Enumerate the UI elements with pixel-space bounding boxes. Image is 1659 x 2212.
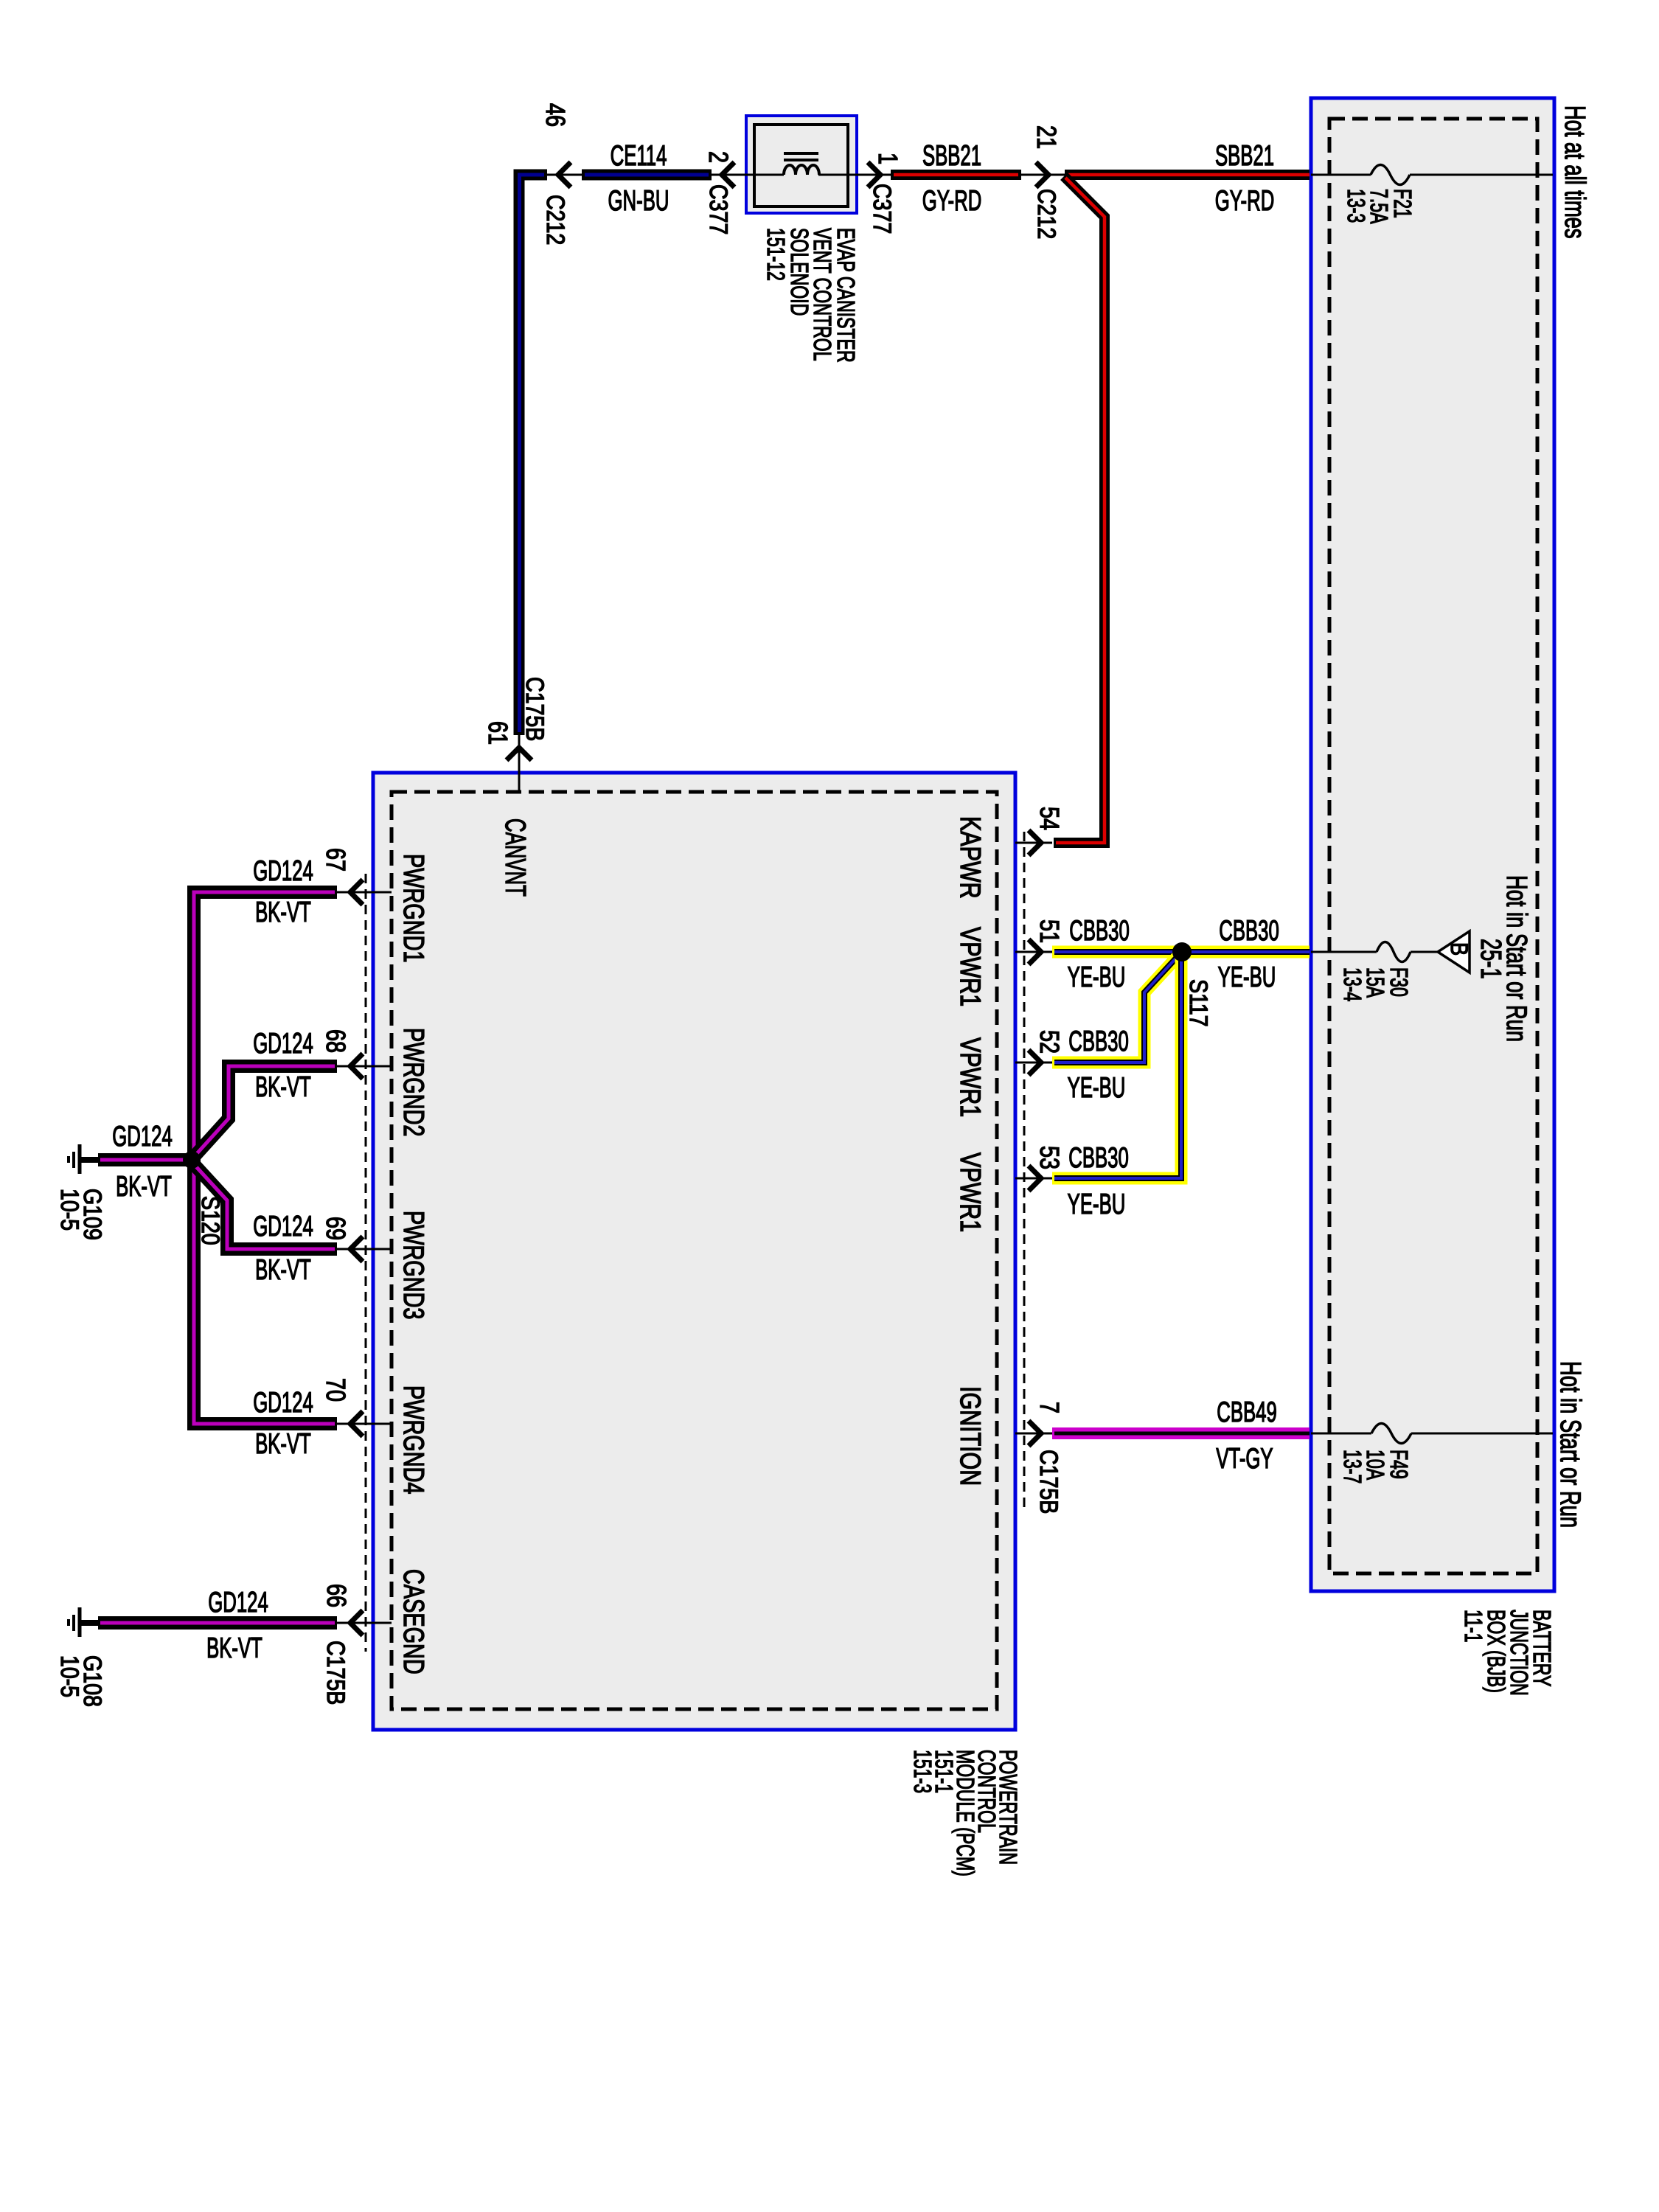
arrow pin 51: [1029, 939, 1041, 964]
svg-text:70: 70: [321, 1378, 351, 1402]
svg-text:C377: C377: [704, 184, 732, 234]
svg-text:51: 51: [1034, 919, 1065, 943]
wire pin2 C377 thin lead into solenoid: [712, 174, 784, 176]
arrow pin 70: [350, 1411, 363, 1436]
svg-text:YE-BU: YE-BU: [1068, 1189, 1126, 1221]
PCM pin 51 lead: [1015, 951, 1052, 953]
arrow pin 7: [1029, 1421, 1041, 1446]
arrow pin 2 C377: [722, 162, 734, 187]
arrow pin 46 C212: [558, 162, 571, 187]
svg-text:GY-RD: GY-RD: [922, 185, 982, 218]
svg-text:CBB30: CBB30: [1219, 915, 1279, 947]
arrow pin 54: [1029, 830, 1041, 855]
wire pin46 C212 thin lead: [547, 174, 584, 176]
fuse F21 7.5A: [1371, 165, 1410, 185]
PCM pin 54 lead: [1015, 842, 1052, 844]
svg-text:IGNITION: IGNITION: [954, 1386, 986, 1486]
svg-text:7: 7: [1034, 1402, 1065, 1413]
svg-text:66: 66: [321, 1584, 352, 1607]
fuse F49 feed line inside BJB: [1311, 1433, 1371, 1435]
svg-text:CBB30: CBB30: [1068, 1142, 1129, 1175]
svg-text:25-1: 25-1: [1475, 939, 1506, 979]
svg-text:GY-RD: GY-RD: [1215, 185, 1275, 218]
svg-text:SBB21: SBB21: [1215, 140, 1274, 173]
svg-text:GD124: GD124: [253, 1211, 313, 1243]
arrow pin 52: [1029, 1050, 1041, 1075]
solenoid coil core bars: [784, 152, 818, 155]
arrow pin 21 C212: [1036, 162, 1048, 187]
svg-text:Hot at all times: Hot at all times: [1559, 105, 1590, 239]
svg-text:VPWR1: VPWR1: [954, 927, 986, 1006]
svg-text:VT-GY: VT-GY: [1216, 1443, 1273, 1475]
wire CE114 GN-BU vertical + top segment: [519, 175, 547, 735]
svg-text:CE114: CE114: [611, 140, 667, 173]
svg-text:Hot in Start or Run: Hot in Start or Run: [1554, 1361, 1586, 1528]
svg-text:GD124: GD124: [208, 1587, 268, 1619]
wire GD124 BK-VT trunk pins 67-70: [194, 892, 337, 1424]
svg-text:10-5: 10-5: [55, 1655, 83, 1697]
wire GD124 BK-VT pin 68 branch: [193, 1066, 337, 1158]
svg-text:KAPWR: KAPWR: [954, 816, 986, 899]
fuse F30 15A: [1377, 942, 1411, 962]
svg-text:SBB21: SBB21: [922, 140, 981, 173]
wire pin1 C377 thin lead out of solenoid: [818, 174, 891, 176]
powertrain control module PCM: [373, 773, 1015, 1730]
PCM left pin lead y=1210: [337, 891, 392, 894]
svg-text:B: B: [1445, 942, 1472, 956]
svg-text:VPWR1: VPWR1: [954, 1037, 986, 1117]
svg-text:BK-VT: BK-VT: [255, 1428, 311, 1461]
wire CBB49 VT-GY pin 7 IGNITION to BJB: [1052, 1427, 1310, 1439]
svg-text:VPWR1: VPWR1: [954, 1152, 986, 1232]
PCM pin 61 lead: [518, 735, 521, 792]
connector C175B dashed line (PCM right): [1023, 832, 1026, 1508]
svg-text:C175B: C175B: [1034, 1450, 1062, 1514]
svg-text:PWRGND3: PWRGND3: [397, 1211, 429, 1319]
svg-text:CBB49: CBB49: [1217, 1397, 1277, 1429]
PCM pin 53 lead: [1015, 1178, 1052, 1180]
svg-text:PWRGND2: PWRGND2: [397, 1028, 429, 1136]
PCM left pin lead y=1446: [337, 1065, 392, 1068]
arrow pin 61 C175B: [507, 748, 532, 760]
svg-text:CANVNT: CANVNT: [499, 818, 532, 897]
wire CBB30 YE-BU pin 51 through splice S117 to BJB: [1052, 946, 1310, 959]
wire pin21 C212 thin lead: [1021, 174, 1066, 176]
wire CBB30 YE-BU pin 53 branch to splice: [1052, 956, 1181, 1178]
svg-text:1: 1: [873, 153, 903, 164]
svg-text:2: 2: [703, 151, 734, 163]
svg-text:13-4: 13-4: [1338, 967, 1366, 1001]
svg-text:61: 61: [483, 721, 513, 745]
svg-text:C212: C212: [541, 195, 569, 245]
svg-text:BK-VT: BK-VT: [206, 1632, 262, 1665]
svg-text:68: 68: [321, 1029, 351, 1053]
svg-text:YE-BU: YE-BU: [1068, 961, 1126, 994]
PCM pin 52 lead: [1015, 1062, 1052, 1064]
arrow pin 67: [350, 880, 363, 905]
arrow pin 1 C377: [868, 162, 880, 187]
svg-text:CBB30: CBB30: [1068, 1026, 1129, 1058]
wire GD124 BK-VT splice to ground G109: [98, 1153, 186, 1166]
svg-text:21: 21: [1032, 125, 1062, 149]
svg-text:67: 67: [321, 848, 351, 872]
arrow pin 66: [350, 1610, 363, 1635]
svg-text:YE-BU: YE-BU: [1218, 961, 1276, 994]
PCM left pin lead y=1931: [337, 1423, 392, 1425]
svg-text:13-7: 13-7: [1338, 1450, 1366, 1484]
wire SBB21 GY-RD C212 to BJB: [1065, 170, 1310, 180]
svg-text:GD124: GD124: [253, 855, 313, 888]
svg-text:S117: S117: [1184, 979, 1212, 1027]
svg-text:PWRGND1: PWRGND1: [397, 854, 429, 962]
fuse F21 feed line inside BJB: [1311, 174, 1371, 176]
wire SBB21 GY-RD branch down to PCM pin 54 KAPWR: [1054, 176, 1105, 843]
svg-text:52: 52: [1034, 1030, 1065, 1054]
svg-text:CASEGND: CASEGND: [397, 1569, 429, 1674]
PCM left pin lead y=1694: [337, 1248, 392, 1251]
fuse F30 feed line inside BJB: [1311, 951, 1377, 953]
svg-text:GD124: GD124: [112, 1121, 173, 1153]
svg-text:BK-VT: BK-VT: [255, 1071, 311, 1104]
arrow pin 68: [350, 1054, 363, 1079]
svg-text:GN-BU: GN-BU: [608, 185, 669, 218]
svg-text:53: 53: [1034, 1146, 1065, 1169]
svg-text:C212: C212: [1032, 189, 1060, 239]
svg-text:69: 69: [321, 1217, 351, 1240]
svg-text:BK-VT: BK-VT: [255, 1254, 311, 1287]
svg-text:10-5: 10-5: [55, 1189, 83, 1231]
wire CBB30 YE-BU pin 52 branch to splice: [1052, 954, 1180, 1062]
ground G109: [81, 1157, 100, 1163]
svg-text:C377: C377: [868, 184, 896, 234]
svg-text:11-1: 11-1: [1459, 1610, 1486, 1643]
splice S117: [1172, 942, 1192, 961]
svg-text:PWRGND4: PWRGND4: [397, 1385, 429, 1494]
svg-text:CBB30: CBB30: [1069, 915, 1130, 947]
svg-text:BK-VT: BK-VT: [255, 897, 311, 929]
connector C175B dashed line (PCM left): [365, 874, 367, 1652]
svg-text:BK-VT: BK-VT: [116, 1171, 172, 1203]
wire SBB21 GY-RD solenoid to C212: [891, 170, 1021, 180]
svg-text:151-12: 151-12: [762, 228, 789, 281]
arrow pin 69: [350, 1237, 363, 1262]
svg-text:C175B: C175B: [521, 677, 549, 741]
svg-text:YE-BU: YE-BU: [1068, 1072, 1126, 1105]
PCM left pin lead y=2201: [337, 1622, 392, 1624]
svg-text:13-3: 13-3: [1342, 189, 1369, 223]
splice S120: [183, 1151, 201, 1169]
svg-text:54: 54: [1034, 807, 1065, 830]
svg-text:C175B: C175B: [321, 1641, 349, 1705]
svg-text:S120: S120: [196, 1196, 224, 1245]
svg-text:GD124: GD124: [253, 1387, 313, 1419]
arrow pin 53: [1029, 1166, 1041, 1191]
svg-text:46: 46: [540, 103, 571, 127]
fuse F49 10A: [1371, 1424, 1411, 1444]
solenoid L1 EVAP canister vent control solenoid box: [746, 116, 857, 213]
wire GD124 BK-VT pin 66 CASEGND to ground G108: [98, 1616, 337, 1630]
wire GD124 BK-VT pin 69 branch: [193, 1164, 337, 1249]
battery junction box BJB: [1311, 98, 1554, 1591]
PCM pin 7 lead: [1015, 1433, 1052, 1435]
off-page reference triangle B: [1438, 931, 1470, 973]
svg-text:GD124: GD124: [253, 1028, 313, 1060]
solenoid coil humps: [784, 165, 819, 175]
ground G108: [81, 1620, 100, 1626]
svg-text:151-3: 151-3: [908, 1750, 936, 1793]
wire CE114 GN-BU horizontal segment: [582, 170, 712, 181]
